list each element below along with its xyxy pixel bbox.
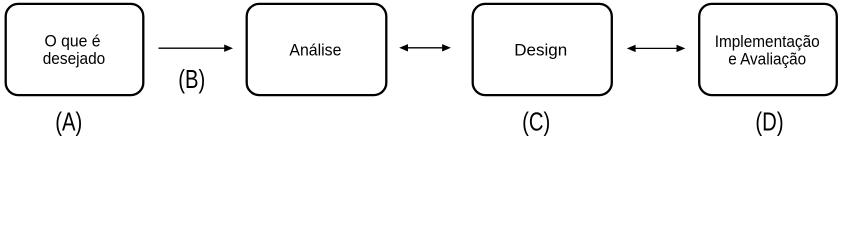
svg-text:(A): (A) [55, 107, 82, 136]
svg-text:Implementação: Implementação [715, 32, 820, 51]
process box: Análise [247, 4, 387, 95]
double-headed arrow: Análise – Design [399, 44, 451, 51]
double-headed arrow: Design – Implementação [627, 45, 686, 52]
svg-text:(C): (C) [522, 107, 550, 136]
process box A: "O que é desejado" [6, 4, 144, 95]
process box D: Implementação e Avaliação [699, 4, 837, 95]
process box C: Design [473, 4, 612, 95]
svg-text:e Avaliação: e Avaliação [728, 49, 806, 68]
svg-text:(B): (B) [178, 65, 205, 94]
svg-text:Design: Design [514, 41, 567, 60]
svg-text:Análise: Análise [289, 41, 341, 60]
svg-text:O que é: O que é [45, 31, 101, 50]
svg-text:(D): (D) [755, 107, 783, 136]
svg-text:desejado: desejado [43, 49, 106, 68]
arrow B: connector from box A to box Análise [159, 45, 234, 52]
